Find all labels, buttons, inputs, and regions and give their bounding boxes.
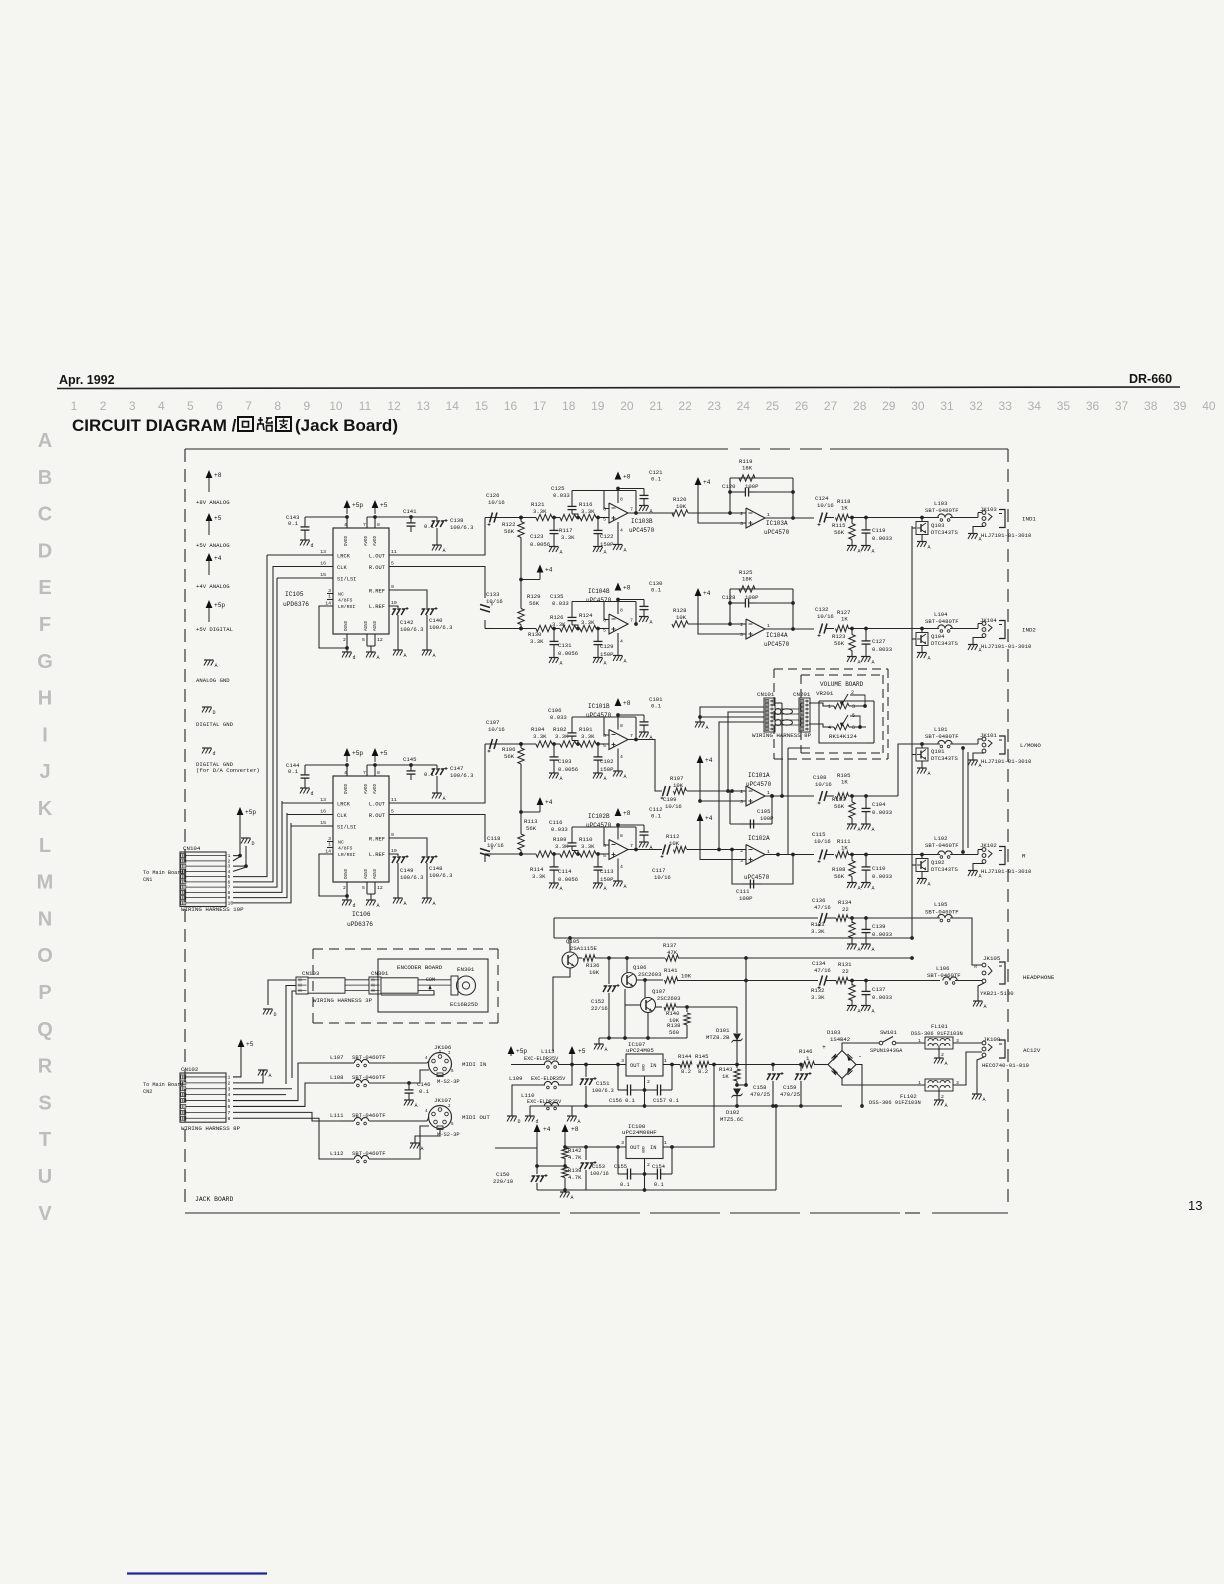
ground d below IC105 xyxy=(342,652,356,661)
ferrite bead L104 SBT-0480TF xyxy=(925,611,959,632)
wire bridge bottom to FL102 xyxy=(842,1079,925,1086)
svg-text:56K: 56K xyxy=(834,803,845,810)
wire bridge - to ground rail xyxy=(856,1065,864,1108)
svg-text:A: A xyxy=(571,1195,574,1201)
svg-text:5: 5 xyxy=(603,853,606,859)
twisted pair wires CN101-CN201 lower xyxy=(775,720,799,726)
svg-text:100P: 100P xyxy=(739,895,753,902)
svg-text:D: D xyxy=(518,1119,521,1125)
svg-text:3.3K: 3.3K xyxy=(561,534,575,541)
svg-text:uPC24M08HF: uPC24M08HF xyxy=(622,1129,657,1136)
wire CN102 pin7 to MIDI row 3 xyxy=(233,1112,340,1121)
svg-text:uPC4570: uPC4570 xyxy=(586,712,612,719)
svg-text:A: A xyxy=(858,947,861,953)
svg-text:40: 40 xyxy=(1202,399,1216,413)
wire CN102 pin8 to MIDI row 4 xyxy=(233,1118,340,1159)
svg-text:0.1: 0.1 xyxy=(419,1088,430,1095)
svg-text:2: 2 xyxy=(228,1080,231,1086)
svg-text:HLJ7101-01-3010: HLJ7101-01-3010 xyxy=(981,758,1032,765)
svg-text:3.3K: 3.3K xyxy=(530,638,544,645)
svg-text:SBT-0460TF: SBT-0460TF xyxy=(352,1150,386,1157)
svg-text:10: 10 xyxy=(391,848,397,854)
svg-text:0.1: 0.1 xyxy=(654,1182,664,1188)
capacitor C119 0.0033 shunt xyxy=(862,518,893,546)
power arrow +4 into IC101A xyxy=(697,755,746,801)
ferrite bead L105 SBT-0460TF xyxy=(925,901,959,922)
feedback wires R119/C120 xyxy=(728,478,795,518)
svg-text:VR201: VR201 xyxy=(816,690,834,697)
power arrow +4 at IC108 xyxy=(534,1124,551,1140)
svg-text:11: 11 xyxy=(391,549,397,555)
svg-text:29: 29 xyxy=(882,399,896,413)
ground A below C101 xyxy=(639,732,653,741)
svg-text:R139: R139 xyxy=(568,1167,581,1174)
svg-text:8: 8 xyxy=(274,399,281,413)
power arrow +4 into IC102A xyxy=(697,813,746,860)
capacitor C134 47/16 series xyxy=(812,960,831,989)
resistor R133 3.3K shunt xyxy=(811,918,855,944)
power symbol +8 / +8V ANALOG xyxy=(196,470,230,506)
ground below FL102 xyxy=(934,1091,948,1109)
svg-text:C102: C102 xyxy=(600,758,613,765)
capacitor C132 10/16 series xyxy=(815,606,834,637)
svg-text:10/16: 10/16 xyxy=(654,874,671,881)
capacitor C126 10/16 series xyxy=(486,492,505,526)
svg-text:D102: D102 xyxy=(726,1109,739,1116)
svg-text:L: L xyxy=(39,835,51,857)
svg-text:S: S xyxy=(38,1092,51,1114)
svg-text:2: 2 xyxy=(941,1052,944,1058)
MIDI jack JK107 M-S2-3P xyxy=(425,1097,490,1138)
svg-text:R107: R107 xyxy=(670,775,683,782)
capacitor C152 22/16 xyxy=(591,958,620,1038)
svg-text:8.2: 8.2 xyxy=(698,1068,708,1075)
svg-text:EXC-ELDR35V: EXC-ELDR35V xyxy=(527,1099,562,1105)
label COM xyxy=(426,977,435,991)
capacitor C128 100P feedback xyxy=(722,594,759,608)
wire into minus input IC104A xyxy=(688,622,746,626)
svg-text:0.033: 0.033 xyxy=(551,826,568,833)
svg-text:d: d xyxy=(311,543,314,549)
svg-text:8: 8 xyxy=(228,1116,231,1122)
capacitor C109 10/16 series xyxy=(661,786,682,810)
svg-text:A: A xyxy=(650,509,653,515)
power arrow +4 bias tap xyxy=(521,797,553,812)
svg-text:IC104B: IC104B xyxy=(588,588,610,595)
wire feedback rail xyxy=(572,827,638,851)
feedback wire C111 xyxy=(732,850,793,885)
svg-text:R.OUT: R.OUT xyxy=(369,813,386,819)
svg-text:ANALOG GND: ANALOG GND xyxy=(196,677,230,684)
ground A below C123 xyxy=(549,547,563,556)
svg-text:18K: 18K xyxy=(742,465,753,472)
capacitor C150 220/10 xyxy=(493,1171,548,1190)
svg-text:SBT-0460TF: SBT-0460TF xyxy=(352,1054,386,1061)
svg-text:16: 16 xyxy=(320,561,326,567)
svg-text:DTC343TS: DTC343TS xyxy=(931,640,958,647)
svg-text:1S4B42: 1S4B42 xyxy=(830,1036,850,1043)
zener diode D102 MTZ5.6C xyxy=(720,1089,744,1124)
svg-text:R.REF: R.REF xyxy=(369,589,385,595)
wire Q105 emitter to +5 xyxy=(553,968,570,1051)
wire chain1 opamp out xyxy=(627,512,674,514)
svg-text:56K: 56K xyxy=(834,640,845,647)
svg-text:Apr. 1992: Apr. 1992 xyxy=(59,373,115,387)
svg-text:NC: NC xyxy=(338,592,344,598)
page header model DR-660 xyxy=(1129,372,1172,386)
svg-text:56K: 56K xyxy=(529,600,540,607)
svg-text:HLJ7101-01-3010: HLJ7101-01-3010 xyxy=(981,643,1032,650)
svg-text:10K: 10K xyxy=(669,840,680,847)
svg-text:A: A xyxy=(872,827,875,833)
svg-text:IC102A: IC102A xyxy=(748,835,770,842)
svg-text:3: 3 xyxy=(129,399,136,413)
wire CN101 pin1 to ground xyxy=(698,707,764,719)
ground A below R132 xyxy=(847,1006,861,1015)
svg-text:1K: 1K xyxy=(722,1073,729,1080)
wire CN101 pin2 to IC101A xyxy=(728,712,764,791)
svg-text:A: A xyxy=(928,656,931,662)
svg-text:R126: R126 xyxy=(550,614,563,621)
op-amp V- stub pin4 to ground xyxy=(613,859,627,891)
wire CN102 pin4 encoder xyxy=(233,1094,286,1096)
svg-text:+5p: +5p xyxy=(352,502,363,509)
svg-text:A: A xyxy=(858,660,861,666)
svg-text:uPC4570: uPC4570 xyxy=(629,527,655,534)
wire digital bus to IC106 SI/LSI xyxy=(291,825,325,827)
svg-text:C111: C111 xyxy=(736,888,750,895)
svg-text:+5p: +5p xyxy=(214,602,225,609)
power arrow +5p supply xyxy=(508,1046,528,1056)
svg-text:EC16B25D: EC16B25D xyxy=(450,1001,478,1008)
wire R137 to node xyxy=(678,956,914,960)
svg-text:WIRING HARNESS 8P: WIRING HARNESS 8P xyxy=(181,1125,241,1132)
svg-text:10/16: 10/16 xyxy=(665,803,682,810)
svg-text:10K: 10K xyxy=(676,614,687,621)
DAC IC106 REF wires xyxy=(389,838,427,856)
svg-text:IC106: IC106 xyxy=(352,911,371,918)
capacitor C108 10/16 series xyxy=(813,774,832,804)
resistor R108 56K shunt xyxy=(832,855,855,883)
ground A below R108 xyxy=(847,883,861,892)
label WIRING HARNESS 8P xyxy=(752,732,812,739)
svg-text:A: A xyxy=(979,874,982,880)
svg-text:MTZ5.6C: MTZ5.6C xyxy=(720,1116,744,1123)
footer blue rule xyxy=(127,1572,267,1574)
svg-text:10/16: 10/16 xyxy=(487,842,504,849)
wire +5p to L113 xyxy=(511,1064,545,1066)
svg-text:uPD6376: uPD6376 xyxy=(347,921,373,928)
svg-text:C152: C152 xyxy=(591,998,604,1005)
svg-text:3.3K: 3.3K xyxy=(532,873,546,880)
svg-text:J: J xyxy=(39,761,50,783)
svg-text:1: 1 xyxy=(918,1038,921,1044)
svg-text:10K: 10K xyxy=(673,782,684,789)
svg-text:3: 3 xyxy=(228,1086,231,1092)
svg-text:SBT-0480TF: SBT-0480TF xyxy=(925,733,959,740)
ground A below C112 xyxy=(639,842,653,851)
svg-text:A: A xyxy=(872,549,875,555)
ground D near CN104 xyxy=(241,838,255,847)
jack JK101 HLJ7101-01-3010 xyxy=(980,732,1041,765)
ground d below IC106 xyxy=(342,900,356,909)
wire CN104 pin9 vertical bus x=287 xyxy=(233,813,287,898)
svg-text:uPC4570: uPC4570 xyxy=(764,529,790,536)
svg-text:34: 34 xyxy=(1028,399,1042,413)
svg-text:13: 13 xyxy=(417,399,431,413)
svg-text:A: A xyxy=(215,663,218,669)
capacitor C157 0.1 xyxy=(653,1085,679,1105)
resistor R140 10K xyxy=(655,1004,680,1024)
power arrow +5p near CN104 xyxy=(237,807,257,816)
capacitor C101 0.1 opamp supply xyxy=(618,696,663,732)
capacitor C153 100/16 xyxy=(580,1147,609,1190)
DAC IC106 input pin stubs xyxy=(325,803,333,848)
wire R140 to R138 node xyxy=(676,1005,689,1009)
svg-text:D: D xyxy=(38,540,52,562)
resistor R124 3.3K xyxy=(579,612,596,632)
capacitor C156 0.1 xyxy=(609,1085,635,1105)
wire FL101 to JK108 xyxy=(953,1042,982,1044)
transistor Q102 DTC343TS mute xyxy=(916,853,958,873)
wire into minus input IC102A xyxy=(687,848,746,852)
wire IC102A out to harness xyxy=(788,748,810,855)
svg-text:12: 12 xyxy=(377,637,383,643)
svg-text:DSS-306 91FZ103N: DSS-306 91FZ103N xyxy=(911,1031,963,1037)
svg-text:C116: C116 xyxy=(549,819,562,826)
svg-text:CLK: CLK xyxy=(337,813,347,819)
svg-text:30: 30 xyxy=(911,399,925,413)
svg-text:A: A xyxy=(377,655,380,661)
wire rail to IC108 IN xyxy=(663,1065,714,1148)
svg-text:C125: C125 xyxy=(551,485,564,492)
svg-text:A: A xyxy=(433,653,436,659)
svg-text:IC103B: IC103B xyxy=(631,518,653,525)
wire junctions shunt xyxy=(848,627,939,631)
svg-text:d: d xyxy=(213,751,216,757)
svg-text:11: 11 xyxy=(391,797,397,803)
svg-text:2: 2 xyxy=(740,511,743,517)
wire chain input R130 xyxy=(492,627,536,631)
svg-text:100P: 100P xyxy=(745,594,759,601)
ground A below C139 xyxy=(861,944,875,953)
svg-text:0.033: 0.033 xyxy=(553,492,570,499)
svg-text:0.1: 0.1 xyxy=(651,587,662,594)
svg-text:1: 1 xyxy=(71,399,78,413)
ground symbol DIGITAL GND xyxy=(196,707,234,728)
svg-text:C122: C122 xyxy=(600,533,613,540)
svg-text:L109: L109 xyxy=(509,1075,522,1082)
svg-text:DSS-306 91FZ103N: DSS-306 91FZ103N xyxy=(869,1100,921,1106)
wire headphone R junctions xyxy=(848,979,940,983)
wire digital bus to IC105 SI/LSI xyxy=(277,577,325,579)
DAC IC105 ground stubs xyxy=(345,634,375,652)
wire Q106 emitter down xyxy=(624,989,626,1038)
svg-text:C158: C158 xyxy=(753,1084,766,1091)
svg-text:13: 13 xyxy=(1188,1198,1202,1213)
column number ruler 1-40 xyxy=(71,399,1216,413)
diode bridge D103 1S4B42 xyxy=(822,1029,862,1079)
ground A below Q103 xyxy=(917,535,931,551)
svg-text:C136: C136 xyxy=(812,897,825,904)
op-amp V+ stub pin8 xyxy=(616,598,623,614)
wire Q107 emitter xyxy=(647,1012,649,1038)
svg-text:A: A xyxy=(650,620,653,626)
ground A below IC106 pins 5/12 xyxy=(366,900,380,909)
svg-text:13: 13 xyxy=(320,797,326,803)
resistor R146 1 xyxy=(799,1048,815,1068)
label To Main Board CN2 xyxy=(143,1082,183,1095)
svg-text:4: 4 xyxy=(228,1092,231,1098)
connector CN102 WIRING HARNESS 8P xyxy=(180,1066,241,1132)
svg-text:R116: R116 xyxy=(579,501,592,508)
svg-text:JK107: JK107 xyxy=(434,1097,452,1104)
svg-text:56K: 56K xyxy=(834,529,845,536)
wire CN102 pin2 to gnd xyxy=(233,1071,263,1083)
svg-text:SI/LSI: SI/LSI xyxy=(337,825,356,831)
svg-text:L103: L103 xyxy=(934,500,947,507)
jack JK102 HLJ7101-01-3010 xyxy=(980,842,1032,875)
svg-text:2SC2603: 2SC2603 xyxy=(638,971,662,978)
svg-text:R.REF: R.REF xyxy=(369,837,385,843)
connector CN101 xyxy=(757,691,775,732)
potentiometer enclosure box xyxy=(819,701,874,743)
ground A below R123 xyxy=(847,657,861,666)
svg-text:4: 4 xyxy=(620,864,623,870)
svg-text:10: 10 xyxy=(329,399,343,413)
wire CN101 pin4 to IC102A xyxy=(719,722,764,850)
svg-text:+5V DIGITAL: +5V DIGITAL xyxy=(196,626,233,633)
svg-text:+4: +4 xyxy=(703,479,711,486)
ground A mute rail xyxy=(594,1044,608,1053)
wire +8 to IC108 OUT xyxy=(563,1145,626,1149)
svg-text:L110: L110 xyxy=(521,1092,535,1099)
jack JK104 ground xyxy=(968,638,984,654)
resistor R102 3.3K xyxy=(553,726,576,747)
connector CN104 WIRING HARNESS 10P xyxy=(180,845,244,913)
svg-text:0.0033: 0.0033 xyxy=(872,535,892,542)
wire Q101 base to mute rail xyxy=(912,754,916,756)
svg-text:C137: C137 xyxy=(872,986,885,993)
svg-text:+4: +4 xyxy=(703,590,711,597)
svg-text:L101: L101 xyxy=(934,726,948,733)
wire CN103 pin2 down xyxy=(286,986,296,1085)
wire lower gnd rail IC108 xyxy=(537,1104,778,1190)
wire chain C107 to R input xyxy=(485,742,536,746)
wire Q103 base to mute rail xyxy=(912,527,916,529)
svg-text:DTC343TS: DTC343TS xyxy=(931,529,958,536)
wire junction C C122 xyxy=(596,516,609,520)
jack JK104 HLJ7101-01-3010 xyxy=(980,617,1036,650)
ground D encoder xyxy=(263,1009,277,1018)
svg-text:8: 8 xyxy=(377,770,380,776)
svg-text:MTZ8.2B: MTZ8.2B xyxy=(706,1034,730,1041)
capacitor C112 0.1 opamp supply xyxy=(618,806,662,842)
MIDI jack JK106 grounds xyxy=(439,1050,441,1053)
svg-text:A: A xyxy=(706,725,709,731)
svg-text:Q107: Q107 xyxy=(652,988,665,995)
svg-text:C110: C110 xyxy=(872,865,886,872)
svg-text:R121: R121 xyxy=(531,501,545,508)
svg-text:A: A xyxy=(858,1009,861,1015)
svg-text:(Jack Board): (Jack Board) xyxy=(295,416,398,435)
ground A volume harness xyxy=(695,722,709,731)
resistor R145 8.2 xyxy=(695,1053,709,1075)
wire CN103 pin1 down xyxy=(292,991,296,1078)
svg-text:JK104: JK104 xyxy=(980,617,997,624)
wire feedback rail xyxy=(572,602,638,626)
svg-text:2SA1115E: 2SA1115E xyxy=(570,945,597,952)
svg-text:AVDD: AVDD xyxy=(374,535,378,546)
capacitor C107 10/16 series xyxy=(486,719,505,752)
svg-text:20: 20 xyxy=(620,399,634,413)
svg-text:EXC-ELDR35V: EXC-ELDR35V xyxy=(524,1056,559,1062)
power arrow +5 supply xyxy=(569,1046,586,1056)
svg-text:R122: R122 xyxy=(502,521,515,528)
svg-text:COM: COM xyxy=(426,977,435,983)
voltage regulator IC108 uPC24M08HF xyxy=(621,1123,667,1159)
power arrow +5 near CN102 xyxy=(238,1039,254,1048)
svg-text:JK101: JK101 xyxy=(980,732,997,739)
svg-text:R136: R136 xyxy=(586,962,599,969)
svg-text:2: 2 xyxy=(647,1079,650,1085)
resistor R123 56K shunt xyxy=(832,629,855,657)
svg-text:R: R xyxy=(38,1056,53,1078)
op-amp V- stub pin4 to ground xyxy=(613,749,627,781)
wire bead to jack JK104 xyxy=(950,624,982,629)
svg-text:H: H xyxy=(38,688,52,710)
DAC IC106 pin14 wire to DGND xyxy=(319,854,347,896)
resistor R104 3.3K xyxy=(531,726,552,747)
wire feedback rail xyxy=(572,491,638,515)
svg-text:1: 1 xyxy=(328,842,331,848)
svg-text:4: 4 xyxy=(158,399,165,413)
svg-text:5: 5 xyxy=(362,885,365,891)
svg-text:AVDD: AVDD xyxy=(365,535,369,546)
resistor R143 1K xyxy=(719,1065,740,1087)
svg-text:YKB21-5130: YKB21-5130 xyxy=(980,990,1014,997)
svg-text:4: 4 xyxy=(228,869,231,875)
svg-text:C120: C120 xyxy=(722,483,736,490)
svg-text:150P: 150P xyxy=(600,876,614,883)
svg-text:C127: C127 xyxy=(872,638,885,645)
resistor R120 10K series xyxy=(672,496,688,516)
svg-text:To Main Board: To Main Board xyxy=(143,1082,183,1088)
wire Q106 collector line R141 xyxy=(636,979,663,981)
capacitor C151 100/6.3 xyxy=(580,1065,614,1108)
ground A below C110 xyxy=(861,883,875,892)
svg-text:Q105: Q105 xyxy=(566,938,579,945)
svg-text:R120: R120 xyxy=(673,496,687,503)
capacitor C138 100/6.3 electrolytic xyxy=(431,517,474,554)
svg-text:uPD6376: uPD6376 xyxy=(283,601,309,608)
capacitor C158 470/25 electrolytic xyxy=(750,1065,784,1108)
svg-text:C118: C118 xyxy=(487,835,500,842)
svg-text:4/8FS: 4/8FS xyxy=(338,846,353,852)
svg-text:1: 1 xyxy=(767,512,770,518)
svg-text:150P: 150P xyxy=(600,766,614,773)
svg-text:R145: R145 xyxy=(695,1053,708,1060)
wire output IC103A xyxy=(765,516,814,520)
svg-text:JK106: JK106 xyxy=(434,1044,452,1051)
svg-text:L113: L113 xyxy=(541,1048,554,1055)
transistor Q106 2SC2603 xyxy=(622,958,662,988)
ground A below C103 xyxy=(549,773,563,782)
svg-text:DGND: DGND xyxy=(345,620,349,631)
svg-text:7: 7 xyxy=(630,843,633,849)
svg-text:CIRCUIT DIAGRAM /: CIRCUIT DIAGRAM / xyxy=(72,416,237,435)
svg-text:0.033: 0.033 xyxy=(552,600,569,607)
